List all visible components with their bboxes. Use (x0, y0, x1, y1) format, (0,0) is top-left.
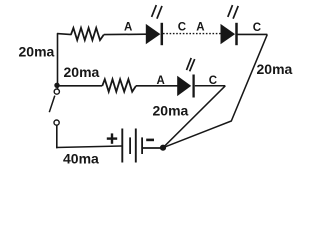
wire: top horizontal left segment (57, 34, 72, 35)
switch (open SPST) (49, 89, 59, 125)
LED D1 (146, 23, 162, 45)
wire: D1 cathode to D2 anode (dotted) (163, 33, 221, 35)
wire: right diagonal down to junction (163, 34, 267, 147)
svg-text:A: A (196, 21, 204, 33)
LED D3 (177, 75, 193, 98)
svg-text:40ma: 40ma (63, 151, 99, 167)
svg-text:C: C (253, 22, 261, 34)
svg-text:20ma: 20ma (64, 64, 100, 80)
LED D1 light marks (152, 5, 162, 19)
wire: resistor to LED1 anode (104, 33, 147, 35)
svg-text:A: A (157, 75, 165, 87)
wire: D3 cathode right stub (195, 85, 226, 87)
label - (battery negative) (146, 139, 154, 142)
svg-text:A: A (124, 22, 132, 34)
wire: middle horizontal left segment (57, 85, 102, 87)
LED D2 (221, 23, 237, 45)
battery (122, 129, 142, 163)
wire: left vertical bus (57, 33, 59, 89)
svg-text:20ma: 20ma (257, 61, 293, 77)
svg-text:C: C (178, 21, 186, 33)
wire: resistor to LED3 anode (136, 85, 178, 87)
svg-text:20ma: 20ma (19, 43, 55, 59)
node: battery-negative junction dot (160, 145, 166, 151)
wire: D2 cathode to top-right corner (238, 33, 268, 35)
wire: bottom horizontal to battery + (56, 146, 122, 148)
resistor (middle branch) (102, 79, 136, 92)
wire: bottom-left vertical (56, 125, 58, 148)
LED D3 light marks (187, 58, 195, 71)
resistor (top branch) (71, 28, 104, 40)
wire: battery - to junction node (143, 147, 163, 149)
svg-text:20ma: 20ma (153, 103, 189, 119)
node: middle-branch junction dot (54, 83, 59, 88)
wire: middle diagonal to junction (163, 86, 225, 148)
LED D2 light marks (228, 5, 238, 19)
label + (battery positive) (107, 133, 117, 143)
